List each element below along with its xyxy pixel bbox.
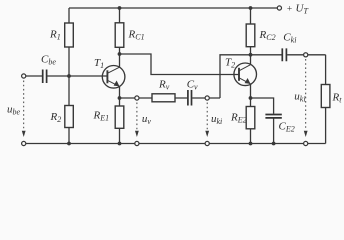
svg-text:Rv: Rv	[158, 79, 170, 92]
svg-text:T1: T1	[94, 57, 104, 70]
svg-text:+: +	[286, 5, 292, 15]
svg-text:uki: uki	[294, 91, 305, 104]
svg-text:Cki: Cki	[283, 31, 296, 44]
svg-text:RC1: RC1	[128, 29, 145, 42]
svg-text:RE2: RE2	[230, 112, 247, 125]
svg-text:uki: uki	[211, 113, 222, 126]
svg-text:ube: ube	[7, 103, 21, 116]
svg-text:R2: R2	[50, 111, 62, 124]
svg-text:T2: T2	[225, 56, 235, 69]
svg-text:R1: R1	[49, 29, 61, 42]
svg-text:Cv: Cv	[187, 79, 198, 92]
svg-text:CE2: CE2	[279, 121, 295, 134]
svg-text:RE1: RE1	[93, 109, 110, 122]
svg-text:uv: uv	[142, 113, 152, 126]
svg-text:Rt: Rt	[332, 92, 343, 105]
svg-text:RC2: RC2	[259, 29, 276, 42]
svg-text:Cbe: Cbe	[41, 54, 56, 67]
svg-text:UT: UT	[296, 3, 309, 16]
